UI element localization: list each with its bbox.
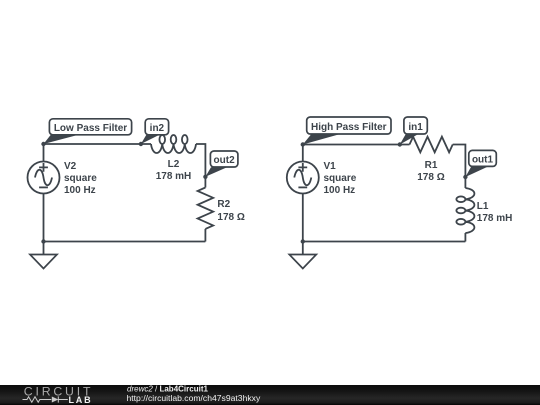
- callout out1: [465, 150, 496, 177]
- wire: right circuit bottom rail: [303, 241, 466, 243]
- svg-text:100 Hz: 100 Hz: [324, 185, 356, 196]
- voltage source V2: [28, 162, 60, 194]
- svg-text:100 Hz: 100 Hz: [64, 185, 96, 196]
- node dots: [41, 142, 467, 244]
- wire: right circuit top rail (node to R1): [303, 145, 410, 162]
- callout in2: [141, 119, 169, 144]
- ground (right): [289, 242, 316, 269]
- ground (left): [30, 242, 57, 269]
- svg-text:L2: L2: [168, 159, 180, 170]
- logo CIRCUIT LAB: [23, 384, 94, 405]
- callout in1: [400, 117, 428, 145]
- svg-text:in2: in2: [150, 123, 165, 134]
- node: LPF anchor: [41, 142, 45, 146]
- wire: V1 bottom to bottom rail: [302, 194, 304, 242]
- node out1: [463, 175, 467, 179]
- callout "Low Pass Filter": [44, 119, 132, 144]
- svg-text:178 Ω: 178 Ω: [417, 172, 444, 183]
- svg-text:V2: V2: [64, 161, 77, 172]
- svg-text:out1: out1: [472, 155, 494, 166]
- junction: right ground: [301, 239, 305, 243]
- voltage source V1: [287, 162, 319, 194]
- svg-text:LAB: LAB: [69, 395, 93, 405]
- wire: left circuit top rail (node A to L2): [44, 144, 152, 162]
- svg-text:R1: R1: [425, 160, 438, 171]
- wire: L2 to top-right corner down to R2: [196, 144, 205, 188]
- footer bar: [0, 385, 540, 405]
- node: HPF anchor: [301, 142, 305, 146]
- svg-text:178 mH: 178 mH: [477, 213, 513, 224]
- node in2: [139, 142, 143, 146]
- svg-text:in1: in1: [408, 122, 423, 133]
- inductor L2: [151, 135, 196, 153]
- svg-text:out2: out2: [214, 155, 236, 166]
- wire: R2 to bottom rail: [204, 229, 206, 242]
- svg-text:L1: L1: [477, 201, 489, 212]
- svg-text:V1: V1: [324, 161, 337, 172]
- resistor R2: [198, 188, 214, 229]
- wire: V2 bottom to bottom rail: [43, 194, 45, 242]
- wire: R1 to top-right corner down to L1: [453, 145, 466, 189]
- wire: left circuit bottom rail: [44, 241, 206, 243]
- svg-text:R2: R2: [217, 199, 230, 210]
- node in1: [398, 142, 402, 146]
- svg-text:square: square: [324, 173, 357, 184]
- resistor R1: [410, 137, 453, 153]
- svg-text:178 Ω: 178 Ω: [217, 212, 244, 223]
- svg-text:square: square: [64, 173, 97, 184]
- node out2: [203, 175, 207, 179]
- junction: left ground: [41, 239, 45, 243]
- callout out2: [205, 151, 238, 177]
- svg-text:Low Pass Filter: Low Pass Filter: [54, 123, 127, 134]
- svg-text:http://circuitlab.com/ch47s9at: http://circuitlab.com/ch47s9at3hkxy: [127, 393, 261, 403]
- svg-text:High Pass Filter: High Pass Filter: [311, 122, 387, 133]
- svg-text:178 mH: 178 mH: [156, 171, 192, 182]
- inductor L1: [456, 188, 474, 233]
- callout "High Pass Filter": [303, 117, 391, 145]
- wire: L1 to bottom rail: [464, 233, 466, 242]
